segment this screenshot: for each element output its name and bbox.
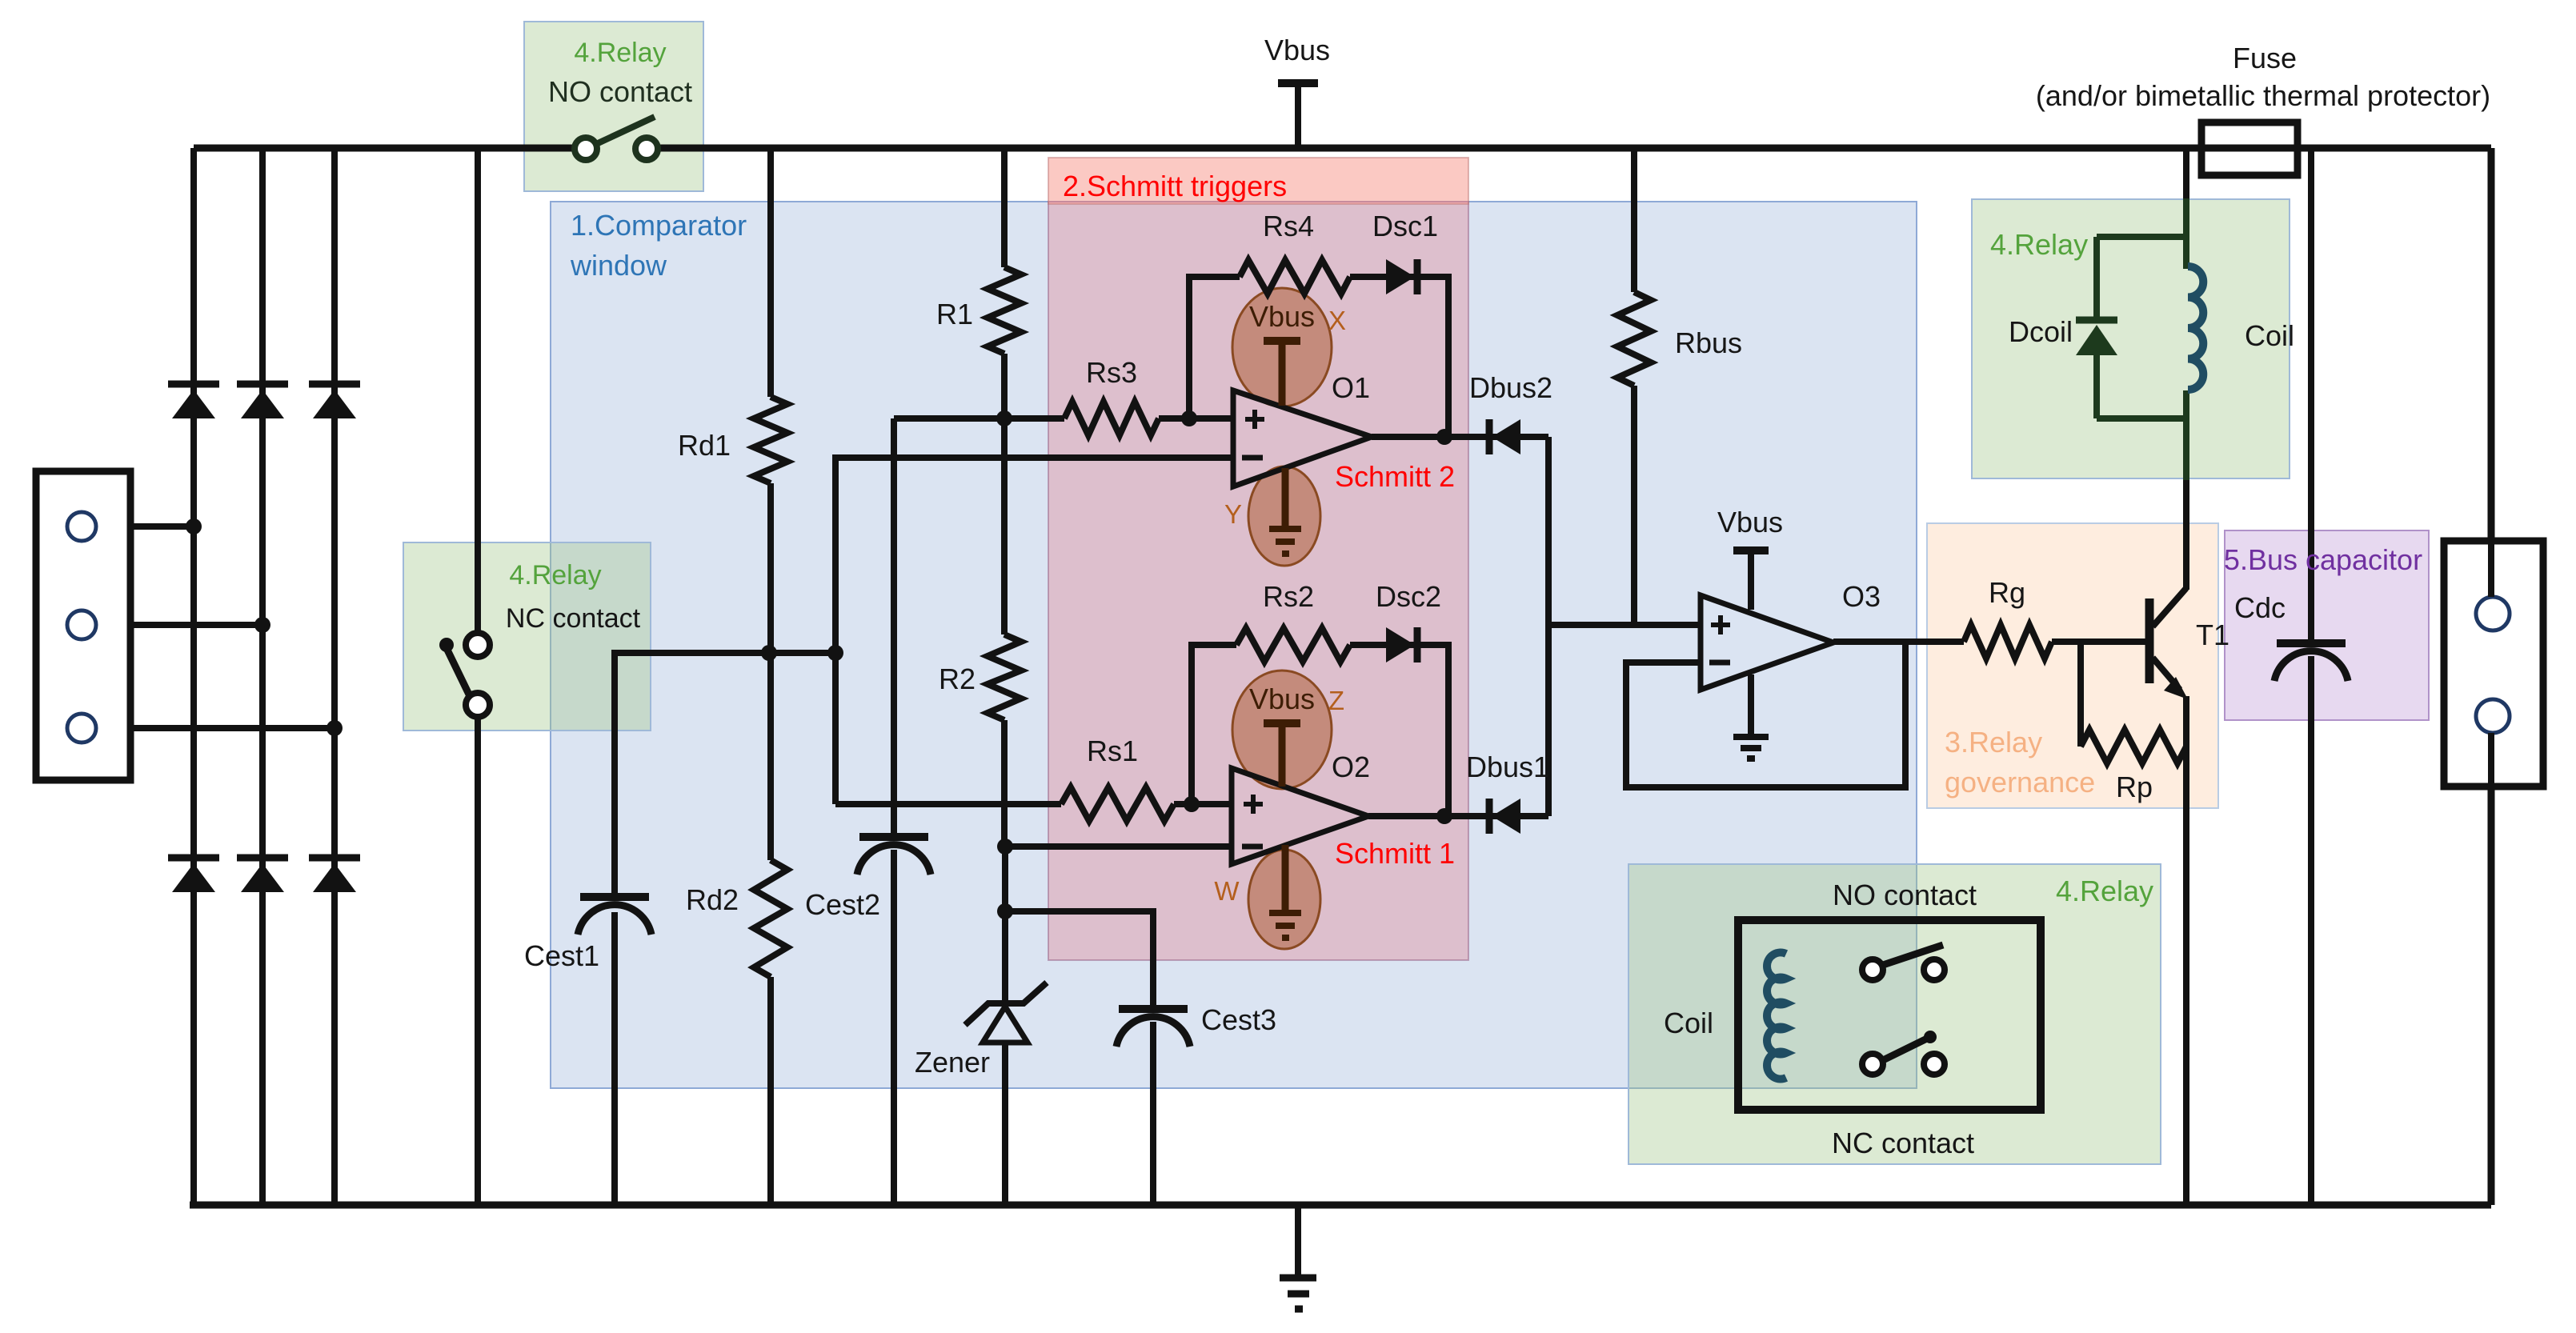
wire Cest1 node — [615, 653, 835, 1205]
resistor Rp — [2081, 730, 2186, 763]
label Vbus (top) — [1264, 34, 1330, 66]
svg-text:Dbus1: Dbus1 — [1466, 751, 1549, 783]
label O1 — [1332, 371, 1370, 404]
wire right rail — [2488, 148, 2495, 1205]
wire bridge column 2 — [259, 148, 266, 1205]
svg-text:Rs1: Rs1 — [1087, 735, 1138, 767]
op-amp O2 — [1232, 768, 1368, 864]
Vbus supply symbol Z — [1264, 723, 1300, 787]
svg-text:NO contact: NO contact — [548, 75, 692, 108]
label Cdc — [2234, 591, 2286, 624]
svg-text:Dsc2: Dsc2 — [1376, 580, 1441, 613]
op-amp O1 — [1233, 390, 1372, 486]
supply oval X — [1232, 288, 1332, 406]
wire bridge column 1 — [190, 148, 197, 1205]
wire T1 collector column — [2183, 478, 2189, 590]
label governance — [1945, 766, 2095, 799]
fuse — [2201, 122, 2298, 175]
label Vbus in oval X — [1249, 300, 1315, 333]
label Schmitt 1 — [1335, 837, 1455, 870]
label O3 — [1842, 580, 1881, 613]
svg-text:X: X — [1328, 306, 1346, 335]
svg-text:Dsc1: Dsc1 — [1372, 210, 1438, 242]
wire R1 column — [1001, 148, 1008, 418]
label Dsc1 — [1372, 210, 1438, 242]
supply oval Z — [1232, 671, 1332, 789]
label 4.Relay (NC box) — [509, 560, 601, 590]
junction node O2 plus feedback — [1184, 796, 1200, 812]
wire Rbus column — [1631, 148, 1637, 625]
svg-text:Rd2: Rd2 — [686, 883, 739, 916]
junction node R1-Rs3 — [996, 410, 1012, 426]
label 4.Relay (top) — [574, 38, 666, 68]
resistor Rs2 — [1236, 628, 1350, 662]
resistor Rs4 — [1240, 260, 1350, 294]
label Rs3 — [1086, 356, 1137, 389]
region box 3.Relay governance — [1927, 523, 2218, 808]
label Dbus1 — [1466, 751, 1549, 783]
svg-text:NO contact: NO contact — [1833, 879, 1977, 911]
svg-text:4.Relay: 4.Relay — [574, 38, 666, 68]
svg-text:Rd1: Rd1 — [678, 429, 731, 462]
wire O3 output — [1833, 638, 2143, 645]
svg-text:Z: Z — [1328, 686, 1344, 715]
region box 1.Comparator window — [551, 202, 1917, 1088]
wire Rd2 column — [767, 653, 774, 1205]
capacitor Cest3 — [1116, 1009, 1190, 1047]
wire O1 inverting input — [835, 458, 1233, 804]
wire phase 3 — [96, 725, 335, 731]
wire phase 2 — [96, 622, 262, 628]
label Dbus2 — [1469, 371, 1552, 404]
relay coil (in relay body) — [1767, 953, 1786, 1079]
svg-text:Zener: Zener — [915, 1046, 990, 1079]
label R2 — [939, 662, 976, 695]
label Z — [1328, 686, 1344, 715]
label Rbus — [1675, 326, 1742, 359]
label 2.Schmitt triggers — [1063, 170, 1287, 202]
svg-text:Cest1: Cest1 — [524, 939, 599, 972]
region box 4.Relay coil (right) — [1972, 199, 2290, 478]
NC contact switch — [439, 633, 490, 717]
svg-text:Vbus: Vbus — [1264, 34, 1330, 66]
label Schmitt 2 — [1335, 460, 1455, 493]
svg-text:Cdc: Cdc — [2234, 591, 2286, 624]
junction node zener-Cest3 — [997, 903, 1013, 919]
svg-text:Cest2: Cest2 — [805, 888, 880, 921]
wire O1 feedback loop — [1189, 277, 1448, 437]
diode Dbus2 — [1489, 419, 1520, 454]
label Rd2 — [686, 883, 739, 916]
wire O2 output — [1368, 813, 1548, 819]
svg-text:Rs4: Rs4 — [1263, 210, 1314, 242]
NO contact switch (top) — [575, 117, 658, 160]
ground symbol Y — [1269, 468, 1301, 554]
wire Cest3 branch — [1005, 911, 1153, 1205]
label Dsc2 — [1376, 580, 1441, 613]
wire Rd1 column — [767, 148, 774, 653]
svg-text:Dbus2: Dbus2 — [1469, 371, 1552, 404]
svg-text:governance: governance — [1945, 766, 2095, 799]
wire top rail — [194, 145, 2491, 152]
label NC contact (relay body) — [1832, 1127, 1974, 1159]
relay coil (right) — [2188, 266, 2203, 390]
label Vbus in oval Z — [1249, 683, 1315, 715]
diode bridge bottom 2 — [237, 858, 288, 892]
svg-text:4.Relay: 4.Relay — [2056, 875, 2153, 907]
label W — [1214, 876, 1240, 906]
label Zener — [915, 1046, 990, 1079]
svg-text:NC contact: NC contact — [506, 603, 641, 634]
label NC contact — [506, 603, 641, 634]
svg-text:Vbus: Vbus — [1717, 506, 1783, 538]
label Rg — [1989, 576, 2025, 609]
label NO contact (relay body) — [1833, 879, 1977, 911]
relay NO contact pair — [1862, 945, 1945, 980]
region box 4.Relay (bottom) — [1629, 864, 2161, 1164]
region box 5.Bus capacitor — [2225, 530, 2429, 720]
label Rs1 — [1087, 735, 1138, 767]
wire bottom rail — [190, 1202, 2491, 1209]
label Cest1 — [524, 939, 599, 972]
svg-text:Vbus: Vbus — [1249, 300, 1315, 333]
svg-text:Coil: Coil — [2245, 319, 2294, 352]
svg-text:Vbus: Vbus — [1249, 683, 1315, 715]
label T1 — [2196, 618, 2229, 651]
junction node R2-O2 minus — [997, 839, 1013, 855]
relay NC contact pair — [1862, 1031, 1945, 1075]
wire zener column — [1002, 911, 1008, 1205]
zener diode — [965, 983, 1047, 1043]
svg-text:T1: T1 — [2196, 618, 2229, 651]
label X — [1328, 306, 1346, 335]
resistor Rd2 — [754, 860, 787, 977]
diode Dsc2 — [1386, 627, 1417, 662]
label R1 — [936, 298, 973, 330]
capacitor Cest2 — [857, 837, 931, 875]
svg-text:O2: O2 — [1332, 751, 1370, 783]
label Dcoil — [2009, 315, 2073, 348]
junction node Rd1-Rd2 — [761, 645, 777, 661]
wire O3 non-inverting input — [1548, 622, 1701, 628]
diode bridge top 1 — [168, 384, 219, 418]
label Fuse — [2233, 42, 2297, 74]
diode Dbus1 — [1489, 799, 1520, 834]
label 1.Comparator — [571, 209, 747, 242]
supply oval W — [1248, 850, 1320, 949]
Vbus supply symbol X — [1264, 341, 1300, 406]
wire phase 1 — [96, 523, 194, 530]
svg-text:O1: O1 — [1332, 371, 1370, 404]
op-amp O3 — [1701, 595, 1833, 690]
label Coil (right box) — [2245, 319, 2294, 352]
svg-text:R2: R2 — [939, 662, 976, 695]
label Y — [1224, 499, 1242, 529]
label fuse subtitle — [2036, 79, 2490, 112]
ground symbol W — [1269, 845, 1301, 938]
svg-text:Rg: Rg — [1989, 576, 2025, 609]
junction node phase2 — [254, 617, 270, 633]
svg-text:Fuse: Fuse — [2233, 42, 2297, 74]
supply oval Y — [1248, 466, 1320, 566]
wire O2 feedback loop — [1192, 645, 1448, 816]
svg-text:(and/or bimetallic thermal pro: (and/or bimetallic thermal protector) — [2036, 79, 2490, 112]
svg-text:Schmitt 1: Schmitt 1 — [1335, 837, 1455, 870]
wire O1 non-inverting input — [894, 415, 1233, 422]
label window — [570, 249, 667, 282]
wire O1 output — [1372, 434, 1548, 440]
relay body box — [1738, 920, 2041, 1110]
label 3.Relay — [1945, 726, 2042, 759]
junction node O1 output — [1436, 429, 1452, 445]
wire relay coil top from rail — [2183, 148, 2189, 237]
wire NC contact column — [475, 148, 481, 1205]
wire relay coil node bottom — [2097, 415, 2186, 422]
wire O2 non-inverting input — [835, 801, 1232, 807]
Vbus supply above O3 — [1733, 550, 1769, 610]
label Vbus above O3 — [1717, 506, 1783, 538]
diode bridge top 2 — [237, 384, 288, 418]
label O2 — [1332, 751, 1370, 783]
diode bridge bottom 3 — [309, 858, 360, 892]
capacitor Cdc — [2274, 643, 2348, 681]
diode Dsc1 — [1386, 259, 1417, 294]
svg-text:5.Bus capacitor: 5.Bus capacitor — [2224, 543, 2422, 576]
label Cest3 — [1201, 1003, 1276, 1036]
wire coil branch — [2183, 237, 2189, 480]
resistor R2 — [988, 634, 1021, 720]
wire Dbus vertical link — [1545, 437, 1552, 816]
wire Cest2 column — [891, 418, 897, 1205]
label Coil (relay body) — [1664, 1007, 1713, 1039]
label 5.Bus capacitor — [2224, 543, 2422, 576]
svg-text:R1: R1 — [936, 298, 973, 330]
resistor Rs3 — [1064, 402, 1159, 435]
resistor Rbus — [1617, 292, 1651, 386]
svg-text:W: W — [1214, 876, 1240, 906]
svg-text:Rs2: Rs2 — [1263, 580, 1314, 613]
svg-text:Rbus: Rbus — [1675, 326, 1742, 359]
wire Cdc column — [2308, 148, 2314, 1205]
wire O3 feedback loop — [1626, 642, 1905, 787]
svg-text:Coil: Coil — [1664, 1007, 1713, 1039]
resistor R1 — [988, 267, 1021, 354]
svg-text:Schmitt 2: Schmitt 2 — [1335, 460, 1455, 493]
wire O2 inverting input — [1005, 843, 1232, 850]
resistor Rs1 — [1061, 787, 1174, 821]
svg-text:Y: Y — [1224, 499, 1242, 529]
label Rs2 — [1263, 580, 1314, 613]
label NO contact (top) — [548, 75, 692, 108]
diode bridge bottom 1 — [168, 858, 219, 892]
wire R2 to zener node — [1002, 847, 1008, 911]
svg-text:Dcoil: Dcoil — [2009, 315, 2073, 348]
svg-text:2.Schmitt triggers: 2.Schmitt triggers — [1063, 170, 1287, 202]
wire Rp riser — [2077, 642, 2084, 747]
svg-text:NC contact: NC contact — [1832, 1127, 1974, 1159]
region box 4.Relay NC contact — [403, 542, 651, 731]
label 4.Relay (right box) — [1990, 228, 2088, 261]
svg-text:window: window — [570, 249, 667, 282]
region box 2.Schmitt triggers — [1048, 158, 1468, 960]
transistor T1 — [2143, 588, 2188, 699]
wire Dcoil branch — [2093, 237, 2100, 418]
svg-text:O3: O3 — [1842, 580, 1881, 613]
diode bridge top 3 — [309, 384, 360, 418]
label Rs4 — [1263, 210, 1314, 242]
junction node O1 plus feedback — [1181, 410, 1197, 426]
junction node O2 output — [1436, 808, 1452, 824]
label Cest2 — [805, 888, 880, 921]
svg-text:1.Comparator: 1.Comparator — [571, 209, 747, 242]
region box 4.Relay NO contact (top) — [524, 22, 703, 191]
svg-text:Rp: Rp — [2116, 771, 2153, 803]
svg-text:Rs3: Rs3 — [1086, 356, 1137, 389]
diode Dcoil — [2076, 320, 2117, 355]
svg-text:Cest3: Cest3 — [1201, 1003, 1276, 1036]
ground bottom center — [1280, 1205, 1316, 1309]
junction node phase1 — [186, 518, 202, 534]
ground below O3 — [1733, 675, 1769, 759]
resistor Rd1 — [754, 397, 787, 483]
resistor Rg — [1964, 625, 2052, 658]
right terminal block — [2444, 541, 2543, 787]
svg-text:4.Relay: 4.Relay — [509, 560, 601, 590]
svg-text:3.Relay: 3.Relay — [1945, 726, 2042, 759]
wire relay coil node top — [2097, 234, 2186, 240]
wire R2 column — [1001, 418, 1008, 847]
label 4.Relay (bottom box) — [2056, 875, 2153, 907]
capacitor Cest1 — [578, 897, 651, 935]
wire T1 emitter column — [2183, 696, 2189, 1205]
wire bridge column 3 — [331, 148, 338, 1205]
junction node estimator — [827, 645, 843, 661]
Vbus supply top center — [1278, 83, 1318, 148]
junction node phase3 — [327, 720, 343, 736]
left terminal block — [36, 471, 130, 780]
label Rp — [2116, 771, 2153, 803]
label Rd1 — [678, 429, 731, 462]
svg-text:4.Relay: 4.Relay — [1990, 228, 2088, 261]
